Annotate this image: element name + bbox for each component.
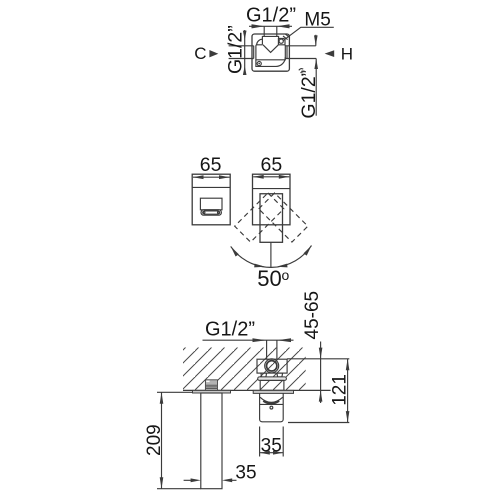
- extension line flange: [157, 391, 193, 393]
- svg-text:45-65: 45-65: [302, 291, 323, 340]
- spout cylinder in wall: [260, 380, 284, 390]
- screw slot ticks: [283, 34, 290, 40]
- wall face line: [183, 389, 331, 391]
- left escutcheon plate: [192, 174, 230, 225]
- dimension 121: [347, 359, 349, 423]
- spout screw: [270, 406, 273, 409]
- handle rotated dashed right: [259, 193, 308, 242]
- supply pipe lines: [267, 340, 277, 359]
- right escutcheon plate: [253, 174, 291, 225]
- V funnel: [263, 45, 278, 53]
- slot screws: [203, 211, 205, 213]
- svg-text:121: 121: [330, 374, 351, 406]
- arc arrow inner right: [276, 264, 287, 268]
- svg-text:65: 65: [261, 154, 283, 176]
- extension line valve top: [287, 358, 349, 360]
- leader M5: [283, 27, 334, 40]
- left vertical dimension line: [244, 30, 246, 74]
- aerator thick arc: [263, 401, 279, 404]
- collar: [258, 377, 287, 381]
- svg-text:209: 209: [144, 424, 165, 456]
- left port stub: [253, 46, 255, 59]
- svg-text:50: 50: [257, 266, 281, 291]
- bottom-left screw circle: [257, 62, 261, 66]
- valve foot left: [261, 373, 267, 377]
- spout dome arc: [260, 397, 283, 402]
- swing arc 50 deg: [231, 246, 312, 268]
- leader line G1/2 bottom: [203, 339, 294, 341]
- valve neck: [262, 36, 278, 44]
- bottom plate with rounded corner: [256, 57, 285, 66]
- valve main body: [256, 45, 285, 60]
- handle front view: [260, 194, 283, 243]
- plate edge line right: [253, 188, 291, 190]
- dimension 35 spout: [260, 427, 284, 457]
- plate edge line: [192, 186, 230, 188]
- valve seat outer circle: [265, 359, 279, 373]
- extension line handle bottom: [157, 488, 201, 490]
- handle centerline: [270, 242, 272, 267]
- dimension 65 right: [253, 176, 289, 178]
- valve seat inner circle: [267, 361, 277, 371]
- arc arrow left end: [231, 246, 239, 256]
- M5 screw circle: [279, 39, 283, 43]
- dimension 45-65: [320, 342, 322, 404]
- svg-text:G1/2”: G1/2”: [205, 319, 255, 341]
- arc arrow inner left: [254, 264, 265, 268]
- right upper arrow line: [315, 35, 317, 46]
- left port lines: [229, 46, 254, 59]
- svg-text:C: C: [194, 44, 206, 63]
- spout slot outer rect: [200, 198, 222, 210]
- spout slot stadium: [201, 210, 221, 215]
- svg-text:65: 65: [200, 154, 222, 176]
- svg-text:35: 35: [235, 462, 256, 483]
- right lower leader line: [315, 59, 317, 116]
- arc arrow right end: [304, 246, 312, 256]
- pipe break marks: [299, 69, 305, 73]
- outer square plate (top view): [252, 34, 289, 71]
- spout wall flange: [253, 390, 293, 393]
- svg-text:G1/2”: G1/2”: [225, 25, 247, 74]
- svg-text:G1/2”: G1/2”: [298, 70, 320, 119]
- svg-text:G1/2”: G1/2”: [246, 5, 296, 27]
- spout body: [260, 393, 284, 421]
- wall hatching: [183, 348, 306, 391]
- handle wall flange: [193, 390, 231, 393]
- M5 screw pad: [278, 38, 285, 44]
- inlet pipe lines: [264, 26, 277, 36]
- spout joint line: [260, 403, 284, 405]
- top-left fillet arc: [257, 39, 263, 45]
- right port lines: [287, 46, 316, 59]
- dimension line top G1/2: [249, 25, 292, 27]
- extension line spout bottom: [288, 422, 349, 424]
- valve foot right: [277, 373, 283, 377]
- threaded handle mount: [205, 380, 217, 391]
- valve block in wall: [257, 359, 287, 373]
- svg-text:H: H: [341, 45, 353, 64]
- arrow H: [325, 50, 335, 57]
- svg-text:o: o: [282, 267, 290, 283]
- dimension 65 left: [193, 176, 230, 178]
- handle bar: [201, 393, 222, 489]
- dimension 209: [161, 392, 163, 488]
- arrow C: [209, 50, 218, 57]
- handle rotated dashed left: [235, 193, 284, 242]
- right port stub: [285, 46, 287, 59]
- slot inner stadium: [203, 211, 219, 214]
